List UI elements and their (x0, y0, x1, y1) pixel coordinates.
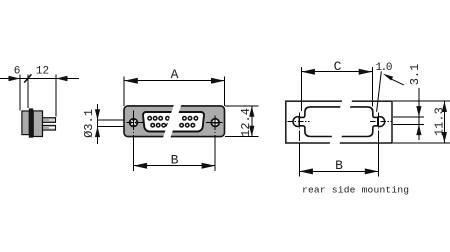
arrow 12.4 down (249, 126, 254, 137)
svg-text:12.4: 12.4 (239, 108, 253, 137)
left hole chord (298, 118, 300, 126)
extension line 3 (55, 75, 57, 117)
arrow 11.3 up (442, 101, 447, 112)
extension line 3.1 top (393, 116, 424, 118)
extension line C right (371, 67, 373, 106)
dia 3.1 arrow up (95, 126, 100, 137)
break band (330, 100, 353, 144)
arrow left (outside, tip right) (9, 76, 21, 82)
svg-text:1.0: 1.0 (375, 62, 391, 74)
dia 3.1 arrow down (95, 109, 100, 120)
centerline vertical left hole (298, 113, 300, 126)
centerline vertical left hole / ext B (133, 111, 135, 130)
leader arrow pointing at 1.0 leader (383, 74, 393, 81)
arrow right (outside, tip left) (56, 76, 68, 82)
oblique tick at middle extension line (24, 74, 31, 82)
centerline horizontal right hole (370, 121, 392, 123)
dia 3.1 lower tangent line (98, 125, 131, 127)
pin 1 (fork contact) (43, 118, 56, 123)
svg-text:rear side mounting: rear side mounting (302, 184, 409, 195)
extension line A right (224, 76, 226, 106)
centerline horizontal left hole (127, 122, 144, 124)
centerline vertical right hole (377, 113, 379, 126)
arrow 3.1 down (outside above) (416, 106, 421, 117)
svg-text:Ø3.1: Ø3.1 (82, 109, 96, 138)
arrow C right (359, 69, 373, 75)
dimension line B (134, 165, 216, 167)
dimension line C (301, 71, 372, 73)
break band (163, 105, 182, 139)
dimension line 6/12 (0, 78, 79, 80)
panel cutout outline (293, 107, 385, 137)
arrow B left (134, 163, 148, 169)
dimension line 12.4 (251, 106, 253, 137)
contact holes top row (148, 117, 198, 121)
extension line C left (300, 67, 302, 111)
dimension line A (124, 80, 224, 82)
right hole chord (377, 118, 379, 126)
pin 2 (fork contact) (43, 125, 56, 130)
dimension line 11.3 (443, 101, 445, 143)
extension line 2 (27, 75, 29, 108)
extension line 12.4 bottom (225, 136, 259, 138)
D-sub shell (143, 112, 204, 132)
svg-text:11.3: 11.3 (433, 107, 447, 136)
flange plate (124, 106, 225, 137)
extension line A left (123, 76, 125, 106)
arrow A left (124, 78, 138, 84)
arrow A right (211, 78, 225, 84)
dia 3.1 upper tangent line (98, 119, 131, 121)
extension line 11.3 bottom (393, 142, 450, 144)
arrow 12.4 up (249, 106, 254, 117)
svg-text:B: B (171, 153, 179, 168)
extension line 12.4 top (225, 105, 259, 107)
svg-text:A: A (171, 67, 179, 82)
extension line 11.3 top (393, 100, 450, 102)
svg-text:C: C (334, 59, 342, 74)
svg-text:12: 12 (36, 66, 49, 78)
arrow C left (301, 69, 315, 75)
svg-text:3.1: 3.1 (408, 64, 422, 86)
dimension line B right (299, 170, 378, 172)
extension line 3.1 bottom (393, 123, 424, 125)
centerline vertical right hole / ext B (214, 115, 216, 130)
dia 3.1 dimension line vertical (97, 104, 99, 144)
arrow 11.3 down (442, 132, 447, 143)
rear body rectangle (286, 101, 392, 143)
dimension line 3.1 (418, 88, 420, 140)
mounting hole right (screw with slot) (211, 119, 219, 127)
rear insulator block (22, 111, 29, 135)
leader 1.0 (377, 71, 382, 112)
flange bar (edge-on) (29, 108, 33, 137)
arrow B right (202, 163, 216, 169)
arrow 3.1 up (outside below) (416, 124, 421, 135)
arrow B right-fig right (365, 168, 379, 174)
svg-text:6: 6 (14, 66, 21, 78)
front shell block (33, 111, 42, 137)
mounting hole left (screw with cross) (130, 119, 138, 127)
centerline horizontal left hole (288, 121, 310, 123)
extension line 1 (19, 75, 21, 111)
arrow B right-fig left (299, 168, 313, 174)
contact holes bottom row (151, 123, 195, 127)
svg-text:B: B (335, 158, 343, 173)
centerline horizontal right hole (206, 122, 223, 124)
